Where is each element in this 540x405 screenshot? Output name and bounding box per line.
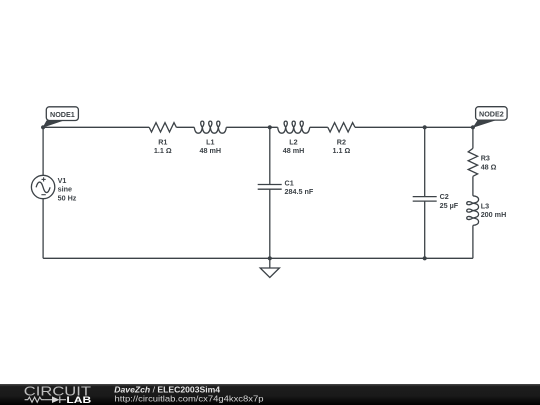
wire L1 to node at C1 xyxy=(226,126,277,128)
svg-text:R3: R3 xyxy=(481,154,490,163)
CircuitLab logo diode xyxy=(45,399,52,401)
wire C1 branch lower xyxy=(269,189,271,258)
svg-text:L3: L3 xyxy=(481,201,489,210)
svg-text:25 µF: 25 µF xyxy=(440,201,459,210)
wire left rail below V1 xyxy=(42,199,44,259)
svg-text:L2: L2 xyxy=(289,137,297,146)
node NODE2 label xyxy=(476,107,508,120)
footer bar xyxy=(0,384,540,405)
svg-text:C1: C1 xyxy=(285,178,294,187)
node junction dot at C2 top xyxy=(423,125,427,129)
wire C2 branch lower xyxy=(424,201,426,258)
capacitor C1 xyxy=(258,185,282,190)
node NODE1 pointer xyxy=(43,121,65,128)
svg-text:284.5 nF: 284.5 nF xyxy=(285,187,314,196)
svg-text:1.1 Ω: 1.1 Ω xyxy=(333,146,351,155)
wire C1 branch upper xyxy=(269,127,271,184)
V1 plus sign xyxy=(41,177,45,194)
ground xyxy=(260,258,279,277)
svg-text:R1: R1 xyxy=(158,137,167,146)
node NODE2 pointer xyxy=(473,120,497,128)
svg-text:1.1 Ω: 1.1 Ω xyxy=(154,146,172,155)
wire C2 branch upper xyxy=(424,127,426,196)
wire R3 to L3 xyxy=(472,176,474,196)
svg-text:C2: C2 xyxy=(440,192,449,201)
node junction dot at C1 bottom / ground xyxy=(268,256,272,260)
svg-text:NODE1: NODE1 xyxy=(50,110,75,119)
voltage source V1 xyxy=(31,175,54,198)
node junction dot at C1 top xyxy=(268,125,272,129)
resistor R2 xyxy=(328,123,355,132)
svg-text:NODE2: NODE2 xyxy=(479,110,504,119)
node NODE1 label xyxy=(46,107,78,121)
svg-text:48 mH: 48 mH xyxy=(283,146,305,155)
svg-text:200 mH: 200 mH xyxy=(481,210,507,219)
wire bottom rail xyxy=(43,257,473,259)
svg-text:LAB: LAB xyxy=(66,395,91,405)
resistor R3 xyxy=(468,148,477,176)
resistor R1 xyxy=(149,123,176,132)
capacitor C2 xyxy=(413,197,437,202)
svg-text:http://circuitlab.com/cx74g4kx: http://circuitlab.com/cx74g4kxc8x7p xyxy=(115,393,264,403)
CircuitLab logo resistor squiggle xyxy=(25,397,45,402)
wire R2 to NODE2 corner xyxy=(355,126,473,128)
inductor L1 xyxy=(194,121,226,133)
wire left rail above V1 xyxy=(42,127,44,175)
svg-text:sine: sine xyxy=(58,185,72,194)
wire L2 to R2 xyxy=(310,126,328,128)
wire right rail above R3 xyxy=(472,127,474,148)
inductor L3 xyxy=(467,196,479,226)
svg-text:48 mH: 48 mH xyxy=(200,146,222,155)
svg-text:V1: V1 xyxy=(58,176,67,185)
svg-text:L1: L1 xyxy=(206,137,214,146)
wire top rail: NODE1 to R1 xyxy=(43,126,149,128)
V1 minus sign xyxy=(41,194,45,196)
svg-text:48 Ω: 48 Ω xyxy=(481,163,497,172)
wire below L3 xyxy=(472,225,474,258)
wire R1 to L1 xyxy=(176,126,194,128)
inductor L2 xyxy=(278,121,310,133)
svg-text:50 Hz: 50 Hz xyxy=(58,194,77,203)
node junction dot at C2 bottom xyxy=(423,256,427,260)
svg-text:R2: R2 xyxy=(337,137,346,146)
